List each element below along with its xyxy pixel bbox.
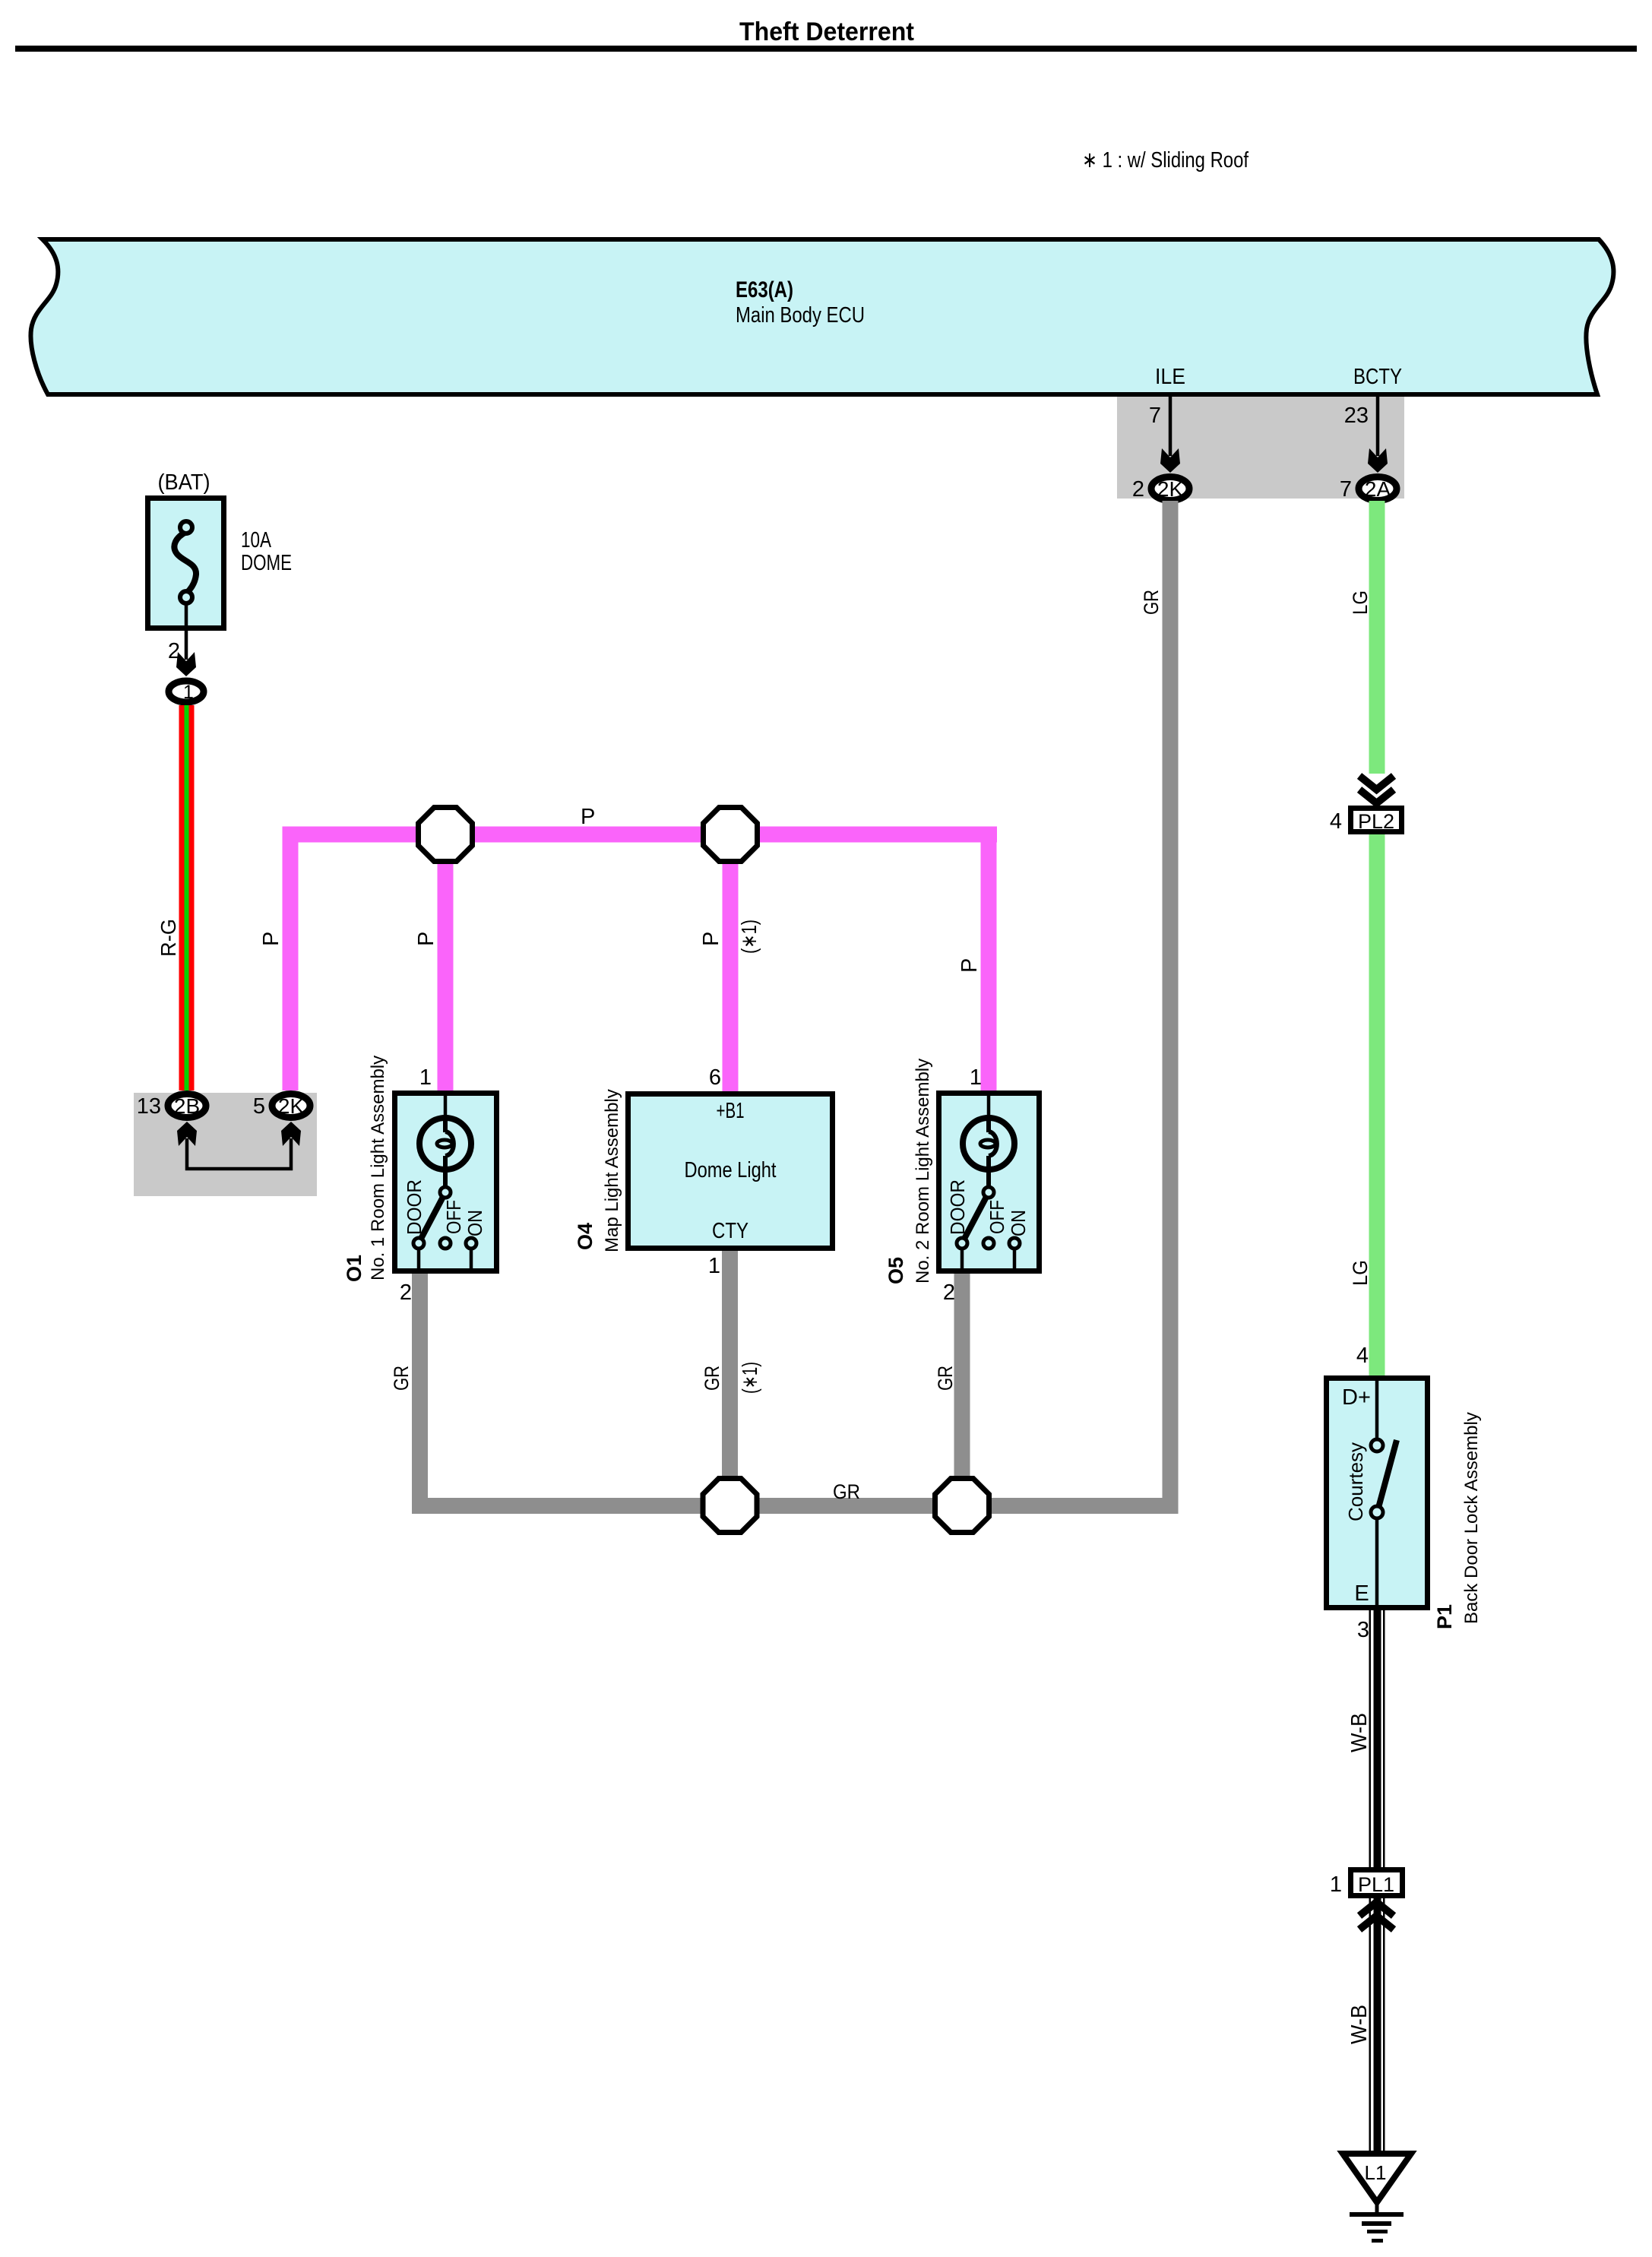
wire GR horizontal rail <box>412 1498 1178 1514</box>
wire GR vertical (2K to gray junction rail) <box>1163 501 1179 1514</box>
svg-text:LG: LG <box>1349 590 1372 615</box>
wire P vertical to O5 <box>981 827 997 1091</box>
back door lock P1 <box>1327 1378 1428 1608</box>
svg-text:No. 2 Room Light Assembly: No. 2 Room Light Assembly <box>913 1059 933 1284</box>
wire link 2B to 2K <box>187 1138 291 1169</box>
wire LG vertical (PL2 to P1 pin 4) <box>1369 834 1385 1375</box>
svg-text:BCTY: BCTY <box>1353 365 1402 389</box>
svg-text:Main Body ECU: Main Body ECU <box>736 303 865 328</box>
svg-text:ON: ON <box>464 1210 486 1236</box>
wire GR from O1 pin 2 <box>412 1274 428 1514</box>
svg-text:1: 1 <box>708 1254 720 1278</box>
junction octagon (pink, dome branch) <box>704 808 758 862</box>
svg-text:2K: 2K <box>1157 477 1184 501</box>
svg-text:GR: GR <box>701 1366 723 1391</box>
svg-text:Theft Deterrent: Theft Deterrent <box>739 17 914 46</box>
svg-text:R-G: R-G <box>157 919 180 957</box>
connector 2A (to BCTY) <box>1340 477 1397 502</box>
svg-text:W-B: W-B <box>1347 1713 1372 1752</box>
svg-text:1: 1 <box>1330 1872 1342 1897</box>
svg-text:4: 4 <box>1330 809 1342 834</box>
wire P network (pink) <box>283 827 998 1093</box>
svg-text:OFF: OFF <box>986 1200 1008 1234</box>
connector shield box (gray) under ECU <box>1117 397 1404 499</box>
svg-text:D+: D+ <box>1342 1385 1371 1410</box>
junction octagon (pink, O1 branch) <box>419 808 473 862</box>
svg-text:W-B: W-B <box>1347 2005 1372 2044</box>
svg-text:13: 13 <box>137 1094 161 1119</box>
svg-text:(∗1): (∗1) <box>737 920 761 954</box>
svg-text:DOME: DOME <box>241 551 292 575</box>
svg-text:(∗1): (∗1) <box>738 1362 761 1394</box>
svg-text:DOOR: DOOR <box>946 1179 969 1235</box>
svg-text:1: 1 <box>419 1065 432 1090</box>
pin BCTY 23 <box>1344 365 1402 473</box>
connector 2K (lower) <box>253 1094 310 1119</box>
svg-text:P1: P1 <box>1433 1604 1456 1629</box>
svg-text:10A: 10A <box>241 528 272 552</box>
svg-text:P: P <box>414 932 438 946</box>
svg-text:2: 2 <box>400 1280 412 1305</box>
wire GR from O4 CTY <box>722 1251 738 1514</box>
svg-text:E: E <box>1354 1581 1369 1606</box>
svg-text:O4: O4 <box>574 1223 597 1250</box>
svg-text:LG: LG <box>1349 1260 1372 1286</box>
svg-text:6: 6 <box>709 1065 721 1090</box>
connector 1 <box>169 681 204 703</box>
svg-text:2: 2 <box>1132 477 1144 502</box>
connector PL1 chevrons (up) <box>1359 1902 1394 1929</box>
svg-text:CTY: CTY <box>712 1219 748 1243</box>
svg-text:GR: GR <box>934 1366 957 1391</box>
junction octagon (gray, dome branch) <box>703 1479 757 1533</box>
svg-text:1: 1 <box>183 682 194 703</box>
svg-text:P: P <box>259 932 283 946</box>
fuse 10A DOME <box>148 470 293 660</box>
connector 2B <box>137 1094 206 1119</box>
wire LG vertical (2A to PL2) <box>1369 501 1385 774</box>
svg-text:Courtesy: Courtesy <box>1344 1442 1367 1521</box>
svg-text:3: 3 <box>1357 1618 1369 1642</box>
svg-text:ILE: ILE <box>1155 365 1185 389</box>
connector PL2 chevrons <box>1359 776 1394 803</box>
connector PL2 box <box>1330 809 1402 834</box>
wire W-B (PL1 to ground) <box>1369 1898 1385 2154</box>
ground L1 <box>1343 2154 1411 2243</box>
svg-text:P: P <box>581 805 595 829</box>
svg-text:OFF: OFF <box>442 1200 465 1234</box>
wire W-B (P1 to PL1) <box>1369 1610 1385 1867</box>
svg-text:Map Light Assembly: Map Light Assembly <box>602 1089 622 1252</box>
junction octagon (gray, O5 branch) <box>935 1479 989 1533</box>
svg-text:GR: GR <box>390 1366 413 1391</box>
svg-text:7: 7 <box>1149 404 1161 428</box>
svg-text:1: 1 <box>970 1065 982 1090</box>
svg-text:2B: 2B <box>174 1094 200 1118</box>
room light O1 <box>395 1065 497 1271</box>
svg-text:4: 4 <box>1356 1344 1369 1368</box>
svg-text:∗ 1 : w/ Sliding Roof: ∗ 1 : w/ Sliding Roof <box>1082 148 1249 173</box>
svg-text:PL2: PL2 <box>1358 810 1394 833</box>
svg-text:Back Door Lock Assembly: Back Door Lock Assembly <box>1461 1412 1482 1624</box>
svg-text:Dome Light: Dome Light <box>685 1158 777 1182</box>
svg-text:5: 5 <box>253 1094 265 1119</box>
wire P vertical to 2K <box>283 834 299 1091</box>
connector PL1 box <box>1330 1870 1403 1898</box>
svg-text:PL1: PL1 <box>1358 1873 1394 1896</box>
svg-text:O1: O1 <box>343 1255 366 1282</box>
svg-text:O5: O5 <box>885 1257 907 1284</box>
svg-text:GR: GR <box>833 1480 860 1503</box>
svg-text:E63(A): E63(A) <box>736 277 793 302</box>
svg-text:DOOR: DOOR <box>403 1179 426 1235</box>
svg-text:2A: 2A <box>1365 477 1391 501</box>
arrow into connector 1 <box>176 652 196 676</box>
svg-text:(BAT): (BAT) <box>158 470 210 495</box>
svg-text:P: P <box>957 958 982 973</box>
title underline <box>15 46 1637 52</box>
svg-text:23: 23 <box>1344 404 1369 428</box>
ECU E63(A) Main Body ECU <box>30 239 1613 394</box>
svg-text:L1: L1 <box>1365 2161 1387 2184</box>
svg-text:ON: ON <box>1007 1210 1030 1236</box>
svg-text:P: P <box>699 932 723 946</box>
pin ILE 7 <box>1149 365 1185 473</box>
svg-text:GR: GR <box>1140 590 1163 615</box>
wire R-G (fuse to 2B) <box>179 705 195 1091</box>
arrow up into 2B <box>177 1122 197 1146</box>
dome light O4 <box>628 1065 833 1249</box>
junction shield box (gray) 2B/2K <box>134 1093 317 1196</box>
room light O5 <box>939 1065 1040 1271</box>
arrow up into 2K lower <box>281 1122 301 1146</box>
wire P horizontal <box>283 827 998 843</box>
wire P vertical to dome +B1 <box>723 842 739 1092</box>
connector 2K (to ILE) <box>1132 477 1189 502</box>
wire P vertical to O1 <box>438 842 454 1091</box>
wire GR network (gray) <box>412 1251 1178 1514</box>
svg-text:+B1: +B1 <box>717 1099 745 1123</box>
svg-text:7: 7 <box>1340 477 1352 502</box>
svg-text:2K: 2K <box>278 1094 305 1118</box>
svg-text:2: 2 <box>943 1280 955 1305</box>
wire GR from O5 pin 2 <box>954 1274 970 1514</box>
svg-text:No. 1 Room Light Assembly: No. 1 Room Light Assembly <box>368 1056 388 1280</box>
